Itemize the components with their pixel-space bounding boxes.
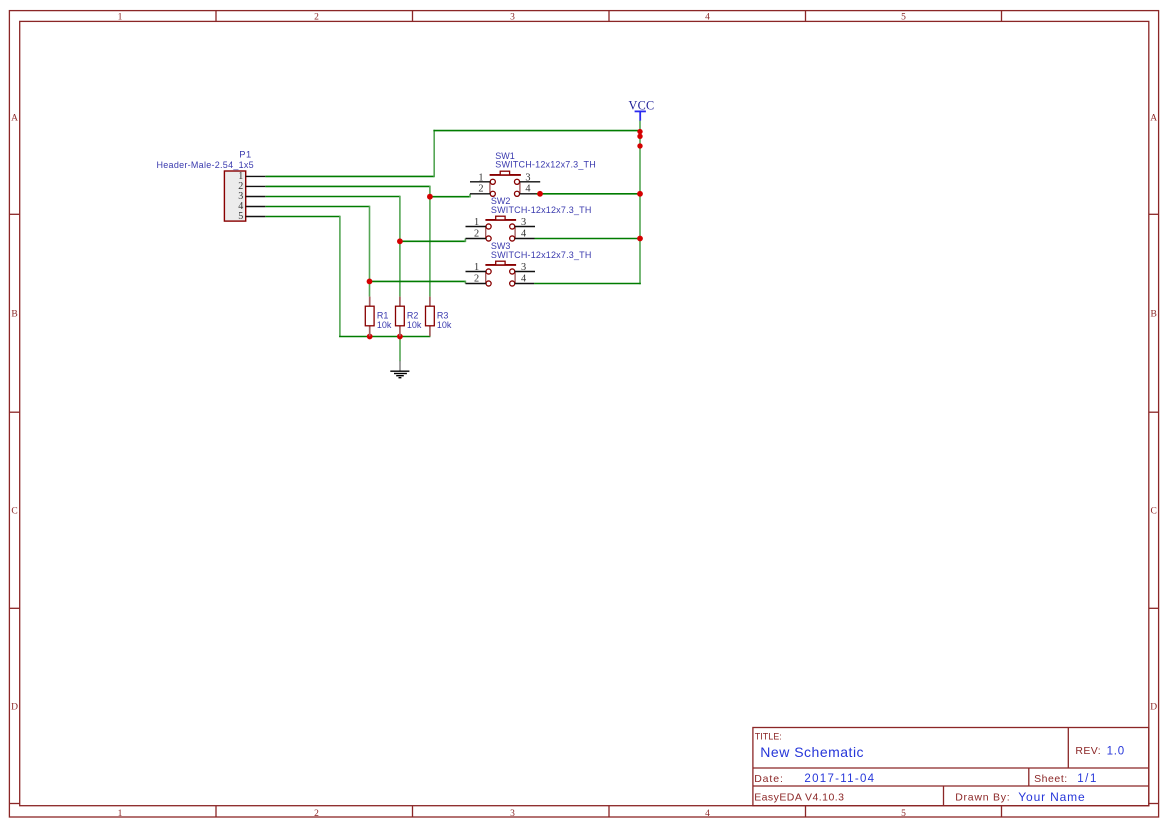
junction VCC c (637, 143, 642, 148)
wire VCC vertical (639, 120, 641, 284)
junction pin4/SW3/R1 (367, 279, 373, 285)
svg-text:4: 4 (521, 228, 526, 239)
svg-text:R2: R2 (407, 311, 419, 321)
junction SW2 row at VCC (637, 236, 643, 242)
P1 pin 5 (238, 211, 265, 222)
svg-text:1: 1 (478, 172, 483, 183)
junction R1 bottom (367, 334, 373, 340)
svg-text:Your Name: Your Name (1018, 790, 1085, 804)
svg-text:3: 3 (510, 12, 515, 22)
svg-text:4: 4 (705, 12, 710, 22)
SW2 pin 4 (515, 228, 535, 239)
SW2 pin 1 (466, 217, 487, 228)
svg-text:B: B (1151, 309, 1157, 319)
svg-text:D: D (1150, 702, 1157, 712)
P1 pin 4 (238, 201, 265, 212)
svg-text:P1: P1 (239, 149, 252, 159)
wire net pin4 to SW3/R1 (265, 206, 465, 297)
svg-text:Sheet:: Sheet: (1034, 773, 1068, 785)
junction pin2/SW1/R3 (427, 194, 433, 200)
svg-text:4: 4 (705, 809, 710, 819)
wire net pin1 to VCC top (265, 130, 640, 177)
P1 pin 1 (238, 171, 265, 182)
svg-text:EasyEDA V4.10.3: EasyEDA V4.10.3 (754, 791, 844, 803)
resistor R1 (365, 297, 374, 337)
switch SW3 body (485, 261, 516, 286)
SW3 pin 3 (515, 262, 535, 273)
svg-text:3: 3 (510, 809, 515, 819)
svg-text:1: 1 (118, 12, 123, 22)
svg-text:3: 3 (525, 172, 530, 183)
svg-text:5: 5 (238, 211, 243, 222)
SW2 pin 3 (515, 217, 535, 228)
wire net pin5 to GND rail (265, 216, 430, 337)
junction SW1 pin4 (537, 191, 543, 197)
SW1 pin 3 (520, 172, 541, 183)
svg-text:1: 1 (474, 217, 479, 228)
SW1 pin 4 (520, 184, 536, 195)
P1 pin 2 (238, 181, 265, 192)
svg-text:SWITCH-12x12x7.3_TH: SWITCH-12x12x7.3_TH (491, 250, 592, 260)
svg-text:A: A (11, 113, 18, 123)
svg-text:5: 5 (901, 809, 906, 819)
svg-text:Drawn By:: Drawn By: (955, 791, 1010, 803)
SW2 pin 2 (466, 228, 487, 239)
svg-text:SWITCH-12x12x7.3_TH: SWITCH-12x12x7.3_TH (495, 160, 596, 170)
resistor R2 (396, 297, 405, 337)
svg-text:TITLE:: TITLE: (755, 731, 782, 741)
junction SW1 row at VCC (637, 191, 643, 197)
SW3 pin 4 (515, 273, 534, 284)
svg-text:4: 4 (525, 184, 530, 195)
SW1 pin 2 (470, 184, 490, 195)
switch SW1 body (490, 171, 521, 196)
svg-text:2: 2 (314, 12, 319, 22)
svg-text:REV:: REV: (1075, 745, 1101, 757)
svg-text:R3: R3 (437, 311, 449, 321)
wire SW1 pin4 to VCC (536, 193, 640, 195)
svg-text:1: 1 (474, 262, 479, 273)
svg-text:2: 2 (474, 228, 479, 239)
svg-text:Date:: Date: (754, 773, 784, 785)
wire SW3 pin4 to VCC (534, 283, 641, 285)
junction R2 bottom/GND (397, 334, 403, 340)
wire GND stem (399, 337, 401, 362)
svg-text:C: C (1151, 506, 1157, 516)
svg-text:1.0: 1.0 (1107, 745, 1125, 757)
svg-text:2017-11-04: 2017-11-04 (804, 773, 875, 785)
svg-text:4: 4 (521, 273, 526, 284)
junction VCC b (637, 134, 642, 139)
SW3 pin 1 (466, 262, 487, 273)
svg-text:New Schematic: New Schematic (760, 744, 864, 760)
SW1 pin 1 (470, 172, 490, 183)
svg-text:2: 2 (478, 184, 483, 195)
header P1 (224, 171, 245, 221)
svg-text:10k: 10k (407, 320, 422, 330)
svg-text:3: 3 (521, 217, 526, 228)
switch SW2 body (485, 216, 516, 241)
svg-text:1: 1 (118, 809, 123, 819)
power flag VCC (629, 99, 655, 121)
svg-text:2: 2 (474, 273, 479, 284)
svg-text:3: 3 (521, 262, 526, 273)
svg-text:Header-Male-2.54_1x5: Header-Male-2.54_1x5 (157, 160, 254, 170)
svg-text:10k: 10k (437, 320, 452, 330)
svg-text:C: C (11, 506, 17, 516)
resistor R3 (426, 297, 435, 337)
svg-text:1/1: 1/1 (1077, 773, 1098, 785)
junction VCC a (637, 129, 642, 134)
P1 pin 3 (238, 191, 265, 202)
svg-text:SWITCH-12x12x7.3_TH: SWITCH-12x12x7.3_TH (491, 205, 592, 215)
svg-text:D: D (11, 702, 18, 712)
wire net pin3 to SW2/R2 (265, 196, 465, 297)
svg-text:2: 2 (314, 809, 319, 819)
wire net pin2 to SW1/R3 (265, 186, 470, 297)
svg-text:B: B (11, 309, 17, 319)
ground (390, 361, 409, 378)
junction pin3/SW2/R2 (397, 238, 403, 244)
svg-text:R1: R1 (377, 311, 389, 321)
svg-text:10k: 10k (377, 320, 392, 330)
svg-text:A: A (1150, 113, 1157, 123)
svg-text:5: 5 (901, 12, 906, 22)
SW3 pin 2 (466, 273, 487, 284)
wire SW2 pin4 to VCC (535, 238, 641, 240)
